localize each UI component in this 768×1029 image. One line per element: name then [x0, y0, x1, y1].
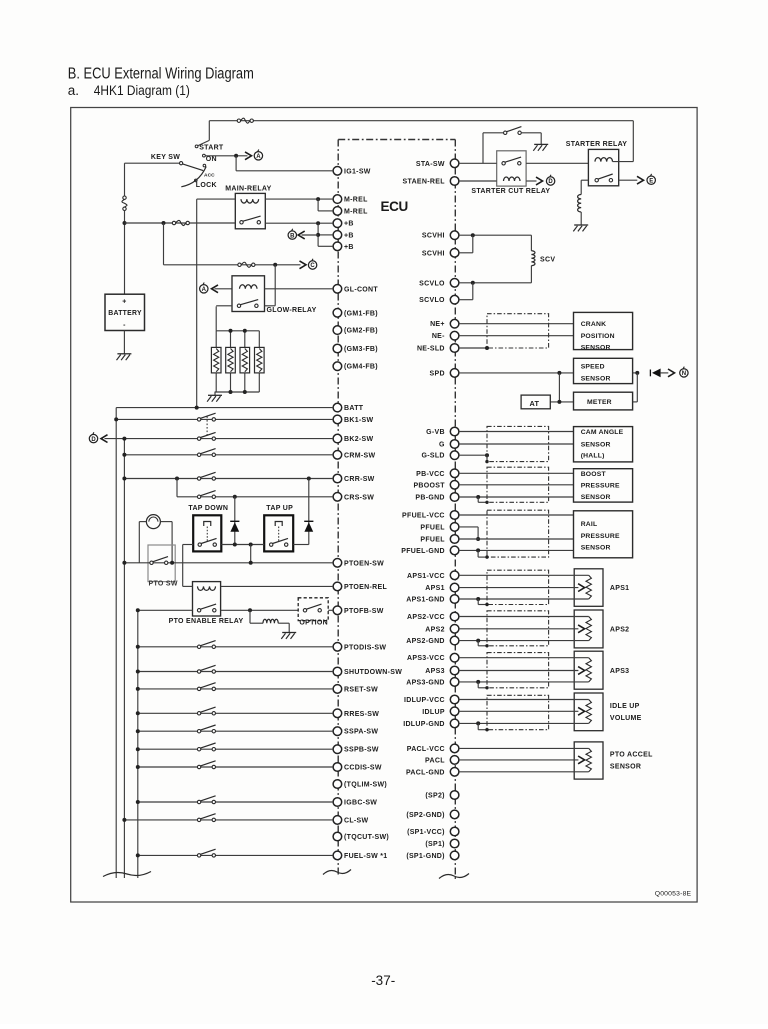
svg-text:APS1: APS1	[425, 585, 445, 592]
svg-text:(TQCUT-SW): (TQCUT-SW)	[344, 834, 389, 841]
svg-text:(SP1-VCC): (SP1-VCC)	[407, 829, 445, 836]
svg-text:CRANK: CRANK	[581, 321, 607, 328]
svg-text:IDLE UP: IDLE UP	[610, 703, 640, 710]
svg-text:E: E	[649, 178, 653, 184]
svg-text:IDLUP: IDLUP	[422, 709, 445, 716]
svg-text:a.: a.	[68, 83, 79, 98]
svg-text:CRS-SW: CRS-SW	[344, 494, 374, 501]
svg-text:(TQLIM-SW): (TQLIM-SW)	[344, 782, 387, 789]
svg-text:SCV: SCV	[540, 257, 555, 264]
svg-text:BOOST: BOOST	[581, 471, 607, 478]
svg-text:SPD: SPD	[430, 370, 445, 377]
svg-text:(GM1-FB): (GM1-FB)	[344, 310, 378, 317]
svg-text:C: C	[310, 263, 315, 269]
svg-text:STAEN-REL: STAEN-REL	[403, 179, 446, 186]
svg-text:START: START	[199, 144, 224, 151]
svg-text:CRR-SW: CRR-SW	[344, 476, 375, 483]
svg-text:PTO ACCEL: PTO ACCEL	[610, 751, 653, 758]
svg-text:LOCK: LOCK	[196, 182, 217, 189]
svg-text:(GM2-FB): (GM2-FB)	[344, 328, 378, 335]
svg-text:(GM3-FB): (GM3-FB)	[344, 346, 378, 353]
svg-text:(SP1-GND): (SP1-GND)	[406, 853, 444, 860]
svg-text:STA-SW: STA-SW	[416, 161, 445, 168]
svg-text:(SP2): (SP2)	[425, 793, 444, 800]
svg-text:APS1-VCC: APS1-VCC	[407, 573, 445, 580]
svg-text:D: D	[548, 179, 553, 185]
svg-text:IDLUP-VCC: IDLUP-VCC	[404, 697, 445, 704]
svg-text:NE-SLD: NE-SLD	[417, 346, 445, 353]
svg-text:APS2: APS2	[610, 626, 630, 633]
svg-text:APS3: APS3	[425, 668, 445, 675]
svg-text:-37-: -37-	[371, 973, 395, 988]
svg-text:APS3-VCC: APS3-VCC	[407, 655, 445, 662]
svg-text:M-REL: M-REL	[344, 197, 368, 204]
svg-text:APS1-GND: APS1-GND	[406, 597, 445, 604]
svg-text:PB-GND: PB-GND	[415, 495, 444, 502]
svg-text:PFUEL: PFUEL	[420, 524, 445, 531]
svg-text:PTODIS-SW: PTODIS-SW	[344, 644, 386, 651]
svg-text:ACC: ACC	[204, 172, 215, 178]
svg-text:BATT: BATT	[344, 405, 364, 412]
svg-text:CAM ANGLE: CAM ANGLE	[581, 429, 624, 436]
svg-text:PACL: PACL	[425, 757, 445, 764]
svg-text:PBOOST: PBOOST	[413, 482, 445, 489]
svg-text:SENSOR: SENSOR	[581, 494, 611, 501]
svg-text:GL-CONT: GL-CONT	[344, 286, 378, 293]
svg-text:4HK1 Diagram (1): 4HK1 Diagram (1)	[94, 83, 190, 98]
svg-text:STARTER RELAY: STARTER RELAY	[566, 141, 627, 148]
svg-text:OPTION: OPTION	[299, 620, 328, 627]
svg-text:APS1: APS1	[610, 585, 630, 592]
svg-text:FUEL-SW *1: FUEL-SW *1	[344, 853, 387, 860]
svg-text:NE-: NE-	[432, 333, 445, 340]
svg-text:PTOFB-SW: PTOFB-SW	[344, 608, 384, 615]
svg-text:APS2-VCC: APS2-VCC	[407, 614, 445, 621]
svg-text:GLOW-RELAY: GLOW-RELAY	[267, 307, 317, 314]
svg-text:RAIL: RAIL	[581, 521, 598, 528]
svg-text:B. ECU External Wiring Diagram: B. ECU External Wiring Diagram	[68, 65, 254, 82]
svg-text:PFUEL-GND: PFUEL-GND	[401, 548, 445, 555]
svg-text:MAIN-RELAY: MAIN-RELAY	[225, 185, 271, 192]
svg-text:PB-VCC: PB-VCC	[416, 471, 445, 478]
svg-text:ECU: ECU	[381, 199, 408, 214]
svg-text:SPEED: SPEED	[581, 364, 605, 371]
svg-text:KEY SW: KEY SW	[151, 154, 180, 161]
svg-text:NE+: NE+	[430, 321, 445, 328]
svg-text:G-VB: G-VB	[426, 429, 445, 436]
svg-text:TAP UP: TAP UP	[266, 505, 293, 512]
svg-text:SSPA-SW: SSPA-SW	[344, 729, 378, 736]
svg-text:CRM-SW: CRM-SW	[344, 452, 375, 459]
svg-text:D: D	[91, 437, 96, 443]
svg-text:SCVHI: SCVHI	[422, 250, 445, 257]
svg-text:ON: ON	[206, 156, 217, 163]
svg-text:APS2: APS2	[425, 626, 445, 633]
svg-text:+: +	[122, 298, 126, 305]
svg-text:BATTERY: BATTERY	[108, 308, 142, 317]
svg-text:(SP1): (SP1)	[425, 841, 444, 848]
svg-text:N: N	[682, 371, 686, 377]
svg-text:SCVLO: SCVLO	[419, 297, 445, 304]
svg-text:+B: +B	[344, 244, 354, 251]
svg-text:PACL-GND: PACL-GND	[406, 769, 445, 776]
svg-text:RRES-SW: RRES-SW	[344, 711, 379, 718]
svg-text:IG1-SW: IG1-SW	[344, 168, 371, 175]
svg-text:TAP DOWN: TAP DOWN	[188, 505, 228, 512]
svg-text:SENSOR: SENSOR	[581, 344, 611, 351]
svg-text:PRESSURE: PRESSURE	[581, 482, 620, 489]
svg-text:AT: AT	[530, 399, 540, 408]
svg-text:SHUTDOWN-SW: SHUTDOWN-SW	[344, 669, 402, 676]
svg-text:SCVLO: SCVLO	[419, 280, 445, 287]
svg-text:CL-SW: CL-SW	[344, 817, 369, 824]
svg-text:SENSOR: SENSOR	[581, 375, 611, 382]
svg-text:IDLUP-GND: IDLUP-GND	[403, 721, 445, 728]
svg-text:PTO ENABLE RELAY: PTO ENABLE RELAY	[169, 618, 244, 625]
svg-text:SSPB-SW: SSPB-SW	[344, 747, 379, 754]
svg-text:STARTER CUT RELAY: STARTER CUT RELAY	[471, 188, 550, 195]
svg-text:(GM4-FB): (GM4-FB)	[344, 364, 378, 371]
svg-text:APS3-GND: APS3-GND	[406, 679, 445, 686]
svg-text:PTOEN-REL: PTOEN-REL	[344, 584, 387, 591]
svg-text:PRESSURE: PRESSURE	[581, 533, 620, 540]
svg-text:G: G	[439, 442, 445, 449]
svg-text:SCVHI: SCVHI	[422, 233, 445, 240]
svg-text:CCDIS-SW: CCDIS-SW	[344, 765, 382, 772]
svg-text:+B: +B	[344, 221, 354, 228]
svg-text:B: B	[290, 233, 295, 239]
svg-text:VOLUME: VOLUME	[610, 715, 642, 722]
svg-text:BK1-SW: BK1-SW	[344, 417, 374, 424]
svg-text:A: A	[256, 154, 261, 160]
svg-text:RSET-SW: RSET-SW	[344, 686, 378, 693]
svg-text:PTOEN-SW: PTOEN-SW	[344, 560, 384, 567]
svg-text:SENSOR: SENSOR	[581, 545, 611, 552]
svg-text:SENSOR: SENSOR	[581, 441, 611, 448]
svg-text:SENSOR: SENSOR	[610, 763, 641, 770]
svg-text:APS3: APS3	[610, 668, 630, 675]
svg-text:+B: +B	[344, 232, 354, 239]
svg-text:APS2-GND: APS2-GND	[406, 638, 445, 645]
svg-text:A: A	[202, 287, 207, 293]
svg-text:PACL-VCC: PACL-VCC	[407, 746, 445, 753]
svg-text:Q00053-8E: Q00053-8E	[655, 891, 692, 898]
svg-text:(SP2-GND): (SP2-GND)	[406, 812, 444, 819]
svg-text:PTO SW: PTO SW	[149, 581, 178, 588]
svg-text:PFUEL-VCC: PFUEL-VCC	[402, 513, 445, 520]
svg-text:G-SLD: G-SLD	[422, 453, 445, 460]
svg-text:POSITION: POSITION	[581, 333, 615, 340]
svg-text:PFUEL: PFUEL	[420, 537, 445, 544]
svg-text:M-REL: M-REL	[344, 208, 368, 215]
svg-text:IGBC-SW: IGBC-SW	[344, 800, 377, 807]
svg-text:BK2-SW: BK2-SW	[344, 436, 374, 443]
svg-text:-: -	[123, 322, 126, 329]
svg-text:METER: METER	[587, 399, 612, 406]
svg-text:(HALL): (HALL)	[581, 453, 605, 460]
